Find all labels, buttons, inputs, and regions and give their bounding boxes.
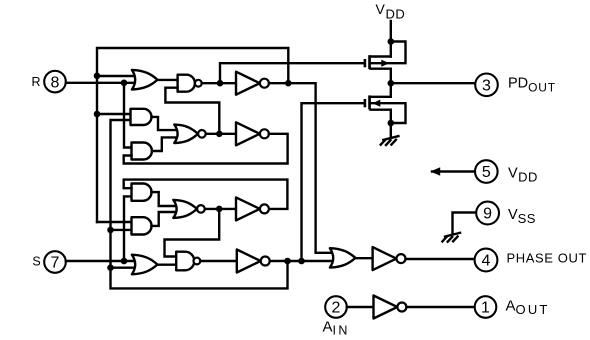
wire G1 output to G2: [157, 79, 177, 81]
pin 9 circle: [476, 202, 499, 225]
nand-gate G2: [178, 75, 202, 92]
inverter INV6: [374, 296, 407, 319]
wire G2 output to PMOS gate: [220, 63, 364, 83]
transistor Q2 drain lead bottom: [371, 110, 391, 137]
svg-text:5: 5: [482, 164, 491, 181]
and-gate G7: [132, 217, 152, 234]
wire G6 output to G8: [151, 192, 175, 206]
node on V1 at G1 branch: [94, 73, 101, 80]
wire INV5 output to pin 4: [406, 258, 475, 260]
wire G4 output to G5: [152, 137, 177, 151]
pin 3 circle: [475, 74, 498, 97]
svg-text:1: 1: [481, 300, 490, 317]
transistor Q1 PMOS channel bar: [368, 55, 371, 69]
transistor Q1 PMOS bulk loop: [371, 42, 406, 64]
wire INV6 output to pin 1: [406, 306, 474, 308]
or-gate G11: [330, 248, 356, 267]
wire G9 output to G10: [157, 264, 176, 266]
pin 8 circle (R input): [44, 71, 66, 93]
wire V2 rail (INV4 feedback net): [111, 120, 288, 288]
node on V1 at G3 branch: [94, 111, 101, 118]
node on R line: [121, 80, 128, 87]
svg-text:3: 3: [482, 78, 491, 95]
wire S line: [66, 260, 134, 262]
transistor Q2 NMOS channel bar: [368, 95, 371, 109]
wire INV4 output to G11 bottom input: [270, 260, 336, 262]
wire G10 output to INV4: [200, 260, 237, 262]
wire INV1 output across to G11: [269, 83, 336, 253]
svg-text:2: 2: [332, 300, 341, 317]
wire VDD down: [390, 21, 392, 57]
wire G8 feedback to G10 top input: [165, 209, 220, 257]
svg-text:8: 8: [51, 74, 60, 91]
inverter INV3: [236, 197, 269, 220]
wire R rail to G4 top input: [124, 83, 132, 148]
wire pin 2 to INV6: [347, 306, 374, 308]
wire G2 output to INV1: [202, 82, 236, 84]
transistor Q1 PMOS bulk arrow: [381, 60, 389, 67]
transistor Q1 source lead: [371, 55, 391, 57]
node at G2 output: [217, 80, 224, 87]
svg-text:4: 4: [482, 253, 491, 270]
node G8 output: [216, 206, 223, 213]
inverter INV1: [236, 72, 269, 95]
wire G5 feedback to G2 bottom input: [165, 88, 219, 134]
node INV1 output / top line: [285, 80, 292, 87]
wire pin 9 to ground: [453, 213, 477, 233]
svg-text:7: 7: [51, 255, 60, 272]
wire to NMOS gate: [302, 103, 364, 261]
node Q2 source: [388, 120, 395, 127]
pin 5 circle: [475, 160, 498, 183]
wire pin 5 arrow: [432, 170, 475, 172]
and-gate G3: [131, 109, 152, 125]
wire INV2 output loop to G4 bottom input: [124, 134, 288, 164]
ground under Q2: [381, 136, 399, 145]
pin 1 circle: [475, 296, 497, 318]
svg-text:9: 9: [483, 206, 492, 223]
node PD output: [388, 80, 395, 87]
transistor Q2 bulk loop: [371, 103, 406, 123]
wire output to pin 3: [391, 82, 476, 84]
inverter INV4: [237, 250, 270, 273]
pin 4 circle: [475, 249, 498, 272]
and-gate G6: [132, 184, 152, 201]
wire V2 to G9 bottom input: [111, 267, 136, 269]
svg-text:PHASE OUT: PHASE OUT: [507, 251, 588, 266]
svg-text:R: R: [31, 75, 40, 89]
inverter INV2: [236, 122, 269, 145]
wire G8 output to INV3: [205, 208, 236, 210]
wire V1 to G7 top input: [97, 221, 132, 223]
wire top feedback line: [97, 48, 288, 222]
node on V2 at G9 branch: [107, 264, 114, 271]
or-gate G1: [132, 70, 158, 90]
wire G7 output to G8: [151, 212, 175, 226]
and-gate G4: [132, 143, 152, 160]
svg-text:S: S: [32, 255, 40, 269]
pin 7 circle (S input): [44, 251, 66, 273]
transistor Q2 source lead top: [371, 96, 391, 98]
wire V2 to G7 bottom input: [111, 229, 132, 231]
wire G11 output to INV5: [355, 257, 372, 259]
transistor Q2 NMOS gate bar: [364, 99, 367, 107]
node INV4 output loop: [284, 258, 291, 265]
pin 2 circle: [325, 296, 347, 318]
wire G5 output to INV2: [206, 133, 236, 135]
node G5 output: [216, 131, 223, 138]
wire S rail to G6 bottom input: [124, 196, 132, 261]
nor-gate G5: [174, 125, 205, 143]
node on V2 at G7 branch: [107, 227, 114, 234]
nor-gate G8: [173, 200, 204, 218]
node on S line: [121, 258, 128, 265]
transistor Q1 PMOS gate bar: [364, 59, 367, 67]
inverter INV5: [373, 247, 406, 270]
nand-gate G10: [176, 252, 200, 271]
node NMOS gate branch: [298, 258, 305, 265]
transistor Q2 bulk arrow: [372, 100, 380, 107]
wire INV3 output loop to G6 top input: [124, 180, 288, 209]
wire V1 dot to G3 top input: [97, 113, 131, 115]
or-gate G9: [132, 255, 158, 275]
wire G3 output to G5: [152, 117, 177, 130]
node VDD: [388, 38, 395, 45]
transistor Q1 drain lead: [371, 69, 391, 97]
wire V1 dot to G1 top input: [97, 75, 135, 77]
arrowhead pin 5: [430, 167, 440, 175]
wire R line: [66, 82, 134, 84]
ground under pin 9: [442, 233, 460, 242]
